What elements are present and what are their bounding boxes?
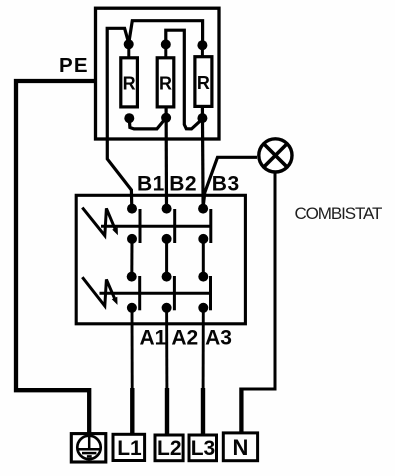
junction dots contactor row1 <box>127 204 208 244</box>
wire bottom U-link R1bottom to R2bottom <box>129 118 166 129</box>
wire lamp to node B3 <box>203 157 257 206</box>
resistor R2 <box>157 44 174 106</box>
terminal box L3 <box>189 435 217 461</box>
wire PE feed (left tall wire to earth terminal) <box>16 81 96 434</box>
lamp COMBISTAT indicator <box>259 139 292 172</box>
svg-text:L2: L2 <box>157 437 182 460</box>
wire A3 contactor to L3 <box>202 308 205 435</box>
earth symbol <box>77 434 101 459</box>
svg-text:N: N <box>232 435 248 460</box>
svg-text:A1: A1 <box>140 327 167 350</box>
contact blade row2 pole3 <box>209 276 212 310</box>
contactor pole1 column wire (row1 bottom to row2 top) <box>130 239 133 277</box>
wire A1 contactor to L1 <box>131 308 134 435</box>
svg-text:B3: B3 <box>212 172 240 195</box>
terminal box N <box>223 433 257 461</box>
svg-text:A3: A3 <box>205 327 232 350</box>
junction dots contactor row2 <box>127 272 209 313</box>
resistor R1 <box>121 44 138 107</box>
svg-text:B2: B2 <box>169 172 197 195</box>
terminal box L1 <box>113 434 145 460</box>
contact bridge bar row2 <box>100 292 211 295</box>
wire top link R1top to R3top <box>129 21 203 45</box>
wire B2 column <box>165 107 169 208</box>
wire B3 column <box>201 106 205 207</box>
heater enclosure box <box>96 8 220 139</box>
junction dots heater <box>124 39 208 123</box>
contactor pole3 column wire <box>202 239 205 277</box>
contactor pole2 column wire <box>165 239 168 277</box>
wire R2top to R3bottom link <box>166 30 202 129</box>
contact blade row1 pole2 <box>173 209 176 243</box>
contact blade row2 pole1 <box>138 276 141 310</box>
actuator flash arrow row2 <box>82 277 117 306</box>
contact blade row1 pole1 <box>139 209 142 243</box>
contact blade row1 pole3 <box>209 209 212 243</box>
contact bridge bar row1 <box>101 225 211 228</box>
resistor R3 <box>195 45 212 106</box>
terminal box earth <box>71 434 106 462</box>
wire lamp to terminal N <box>243 172 275 389</box>
contactor box <box>76 195 245 323</box>
wire B1 from heater internals to contactor B1 <box>107 28 132 208</box>
svg-text:R: R <box>197 73 210 93</box>
svg-text:A2: A2 <box>171 327 198 350</box>
actuator flash arrow row1 <box>82 208 118 236</box>
svg-text:L1: L1 <box>117 437 142 460</box>
svg-text:B1: B1 <box>137 172 165 195</box>
svg-text:R: R <box>159 74 172 94</box>
svg-text:PE: PE <box>59 54 89 77</box>
svg-text:R: R <box>123 74 136 94</box>
contact blade row2 pole2 <box>173 276 176 310</box>
terminal box L2 <box>155 435 183 461</box>
svg-text:COMBISTAT: COMBISTAT <box>295 204 382 223</box>
svg-text:L3: L3 <box>191 437 216 460</box>
wire A2 contactor to L2 <box>165 308 168 435</box>
